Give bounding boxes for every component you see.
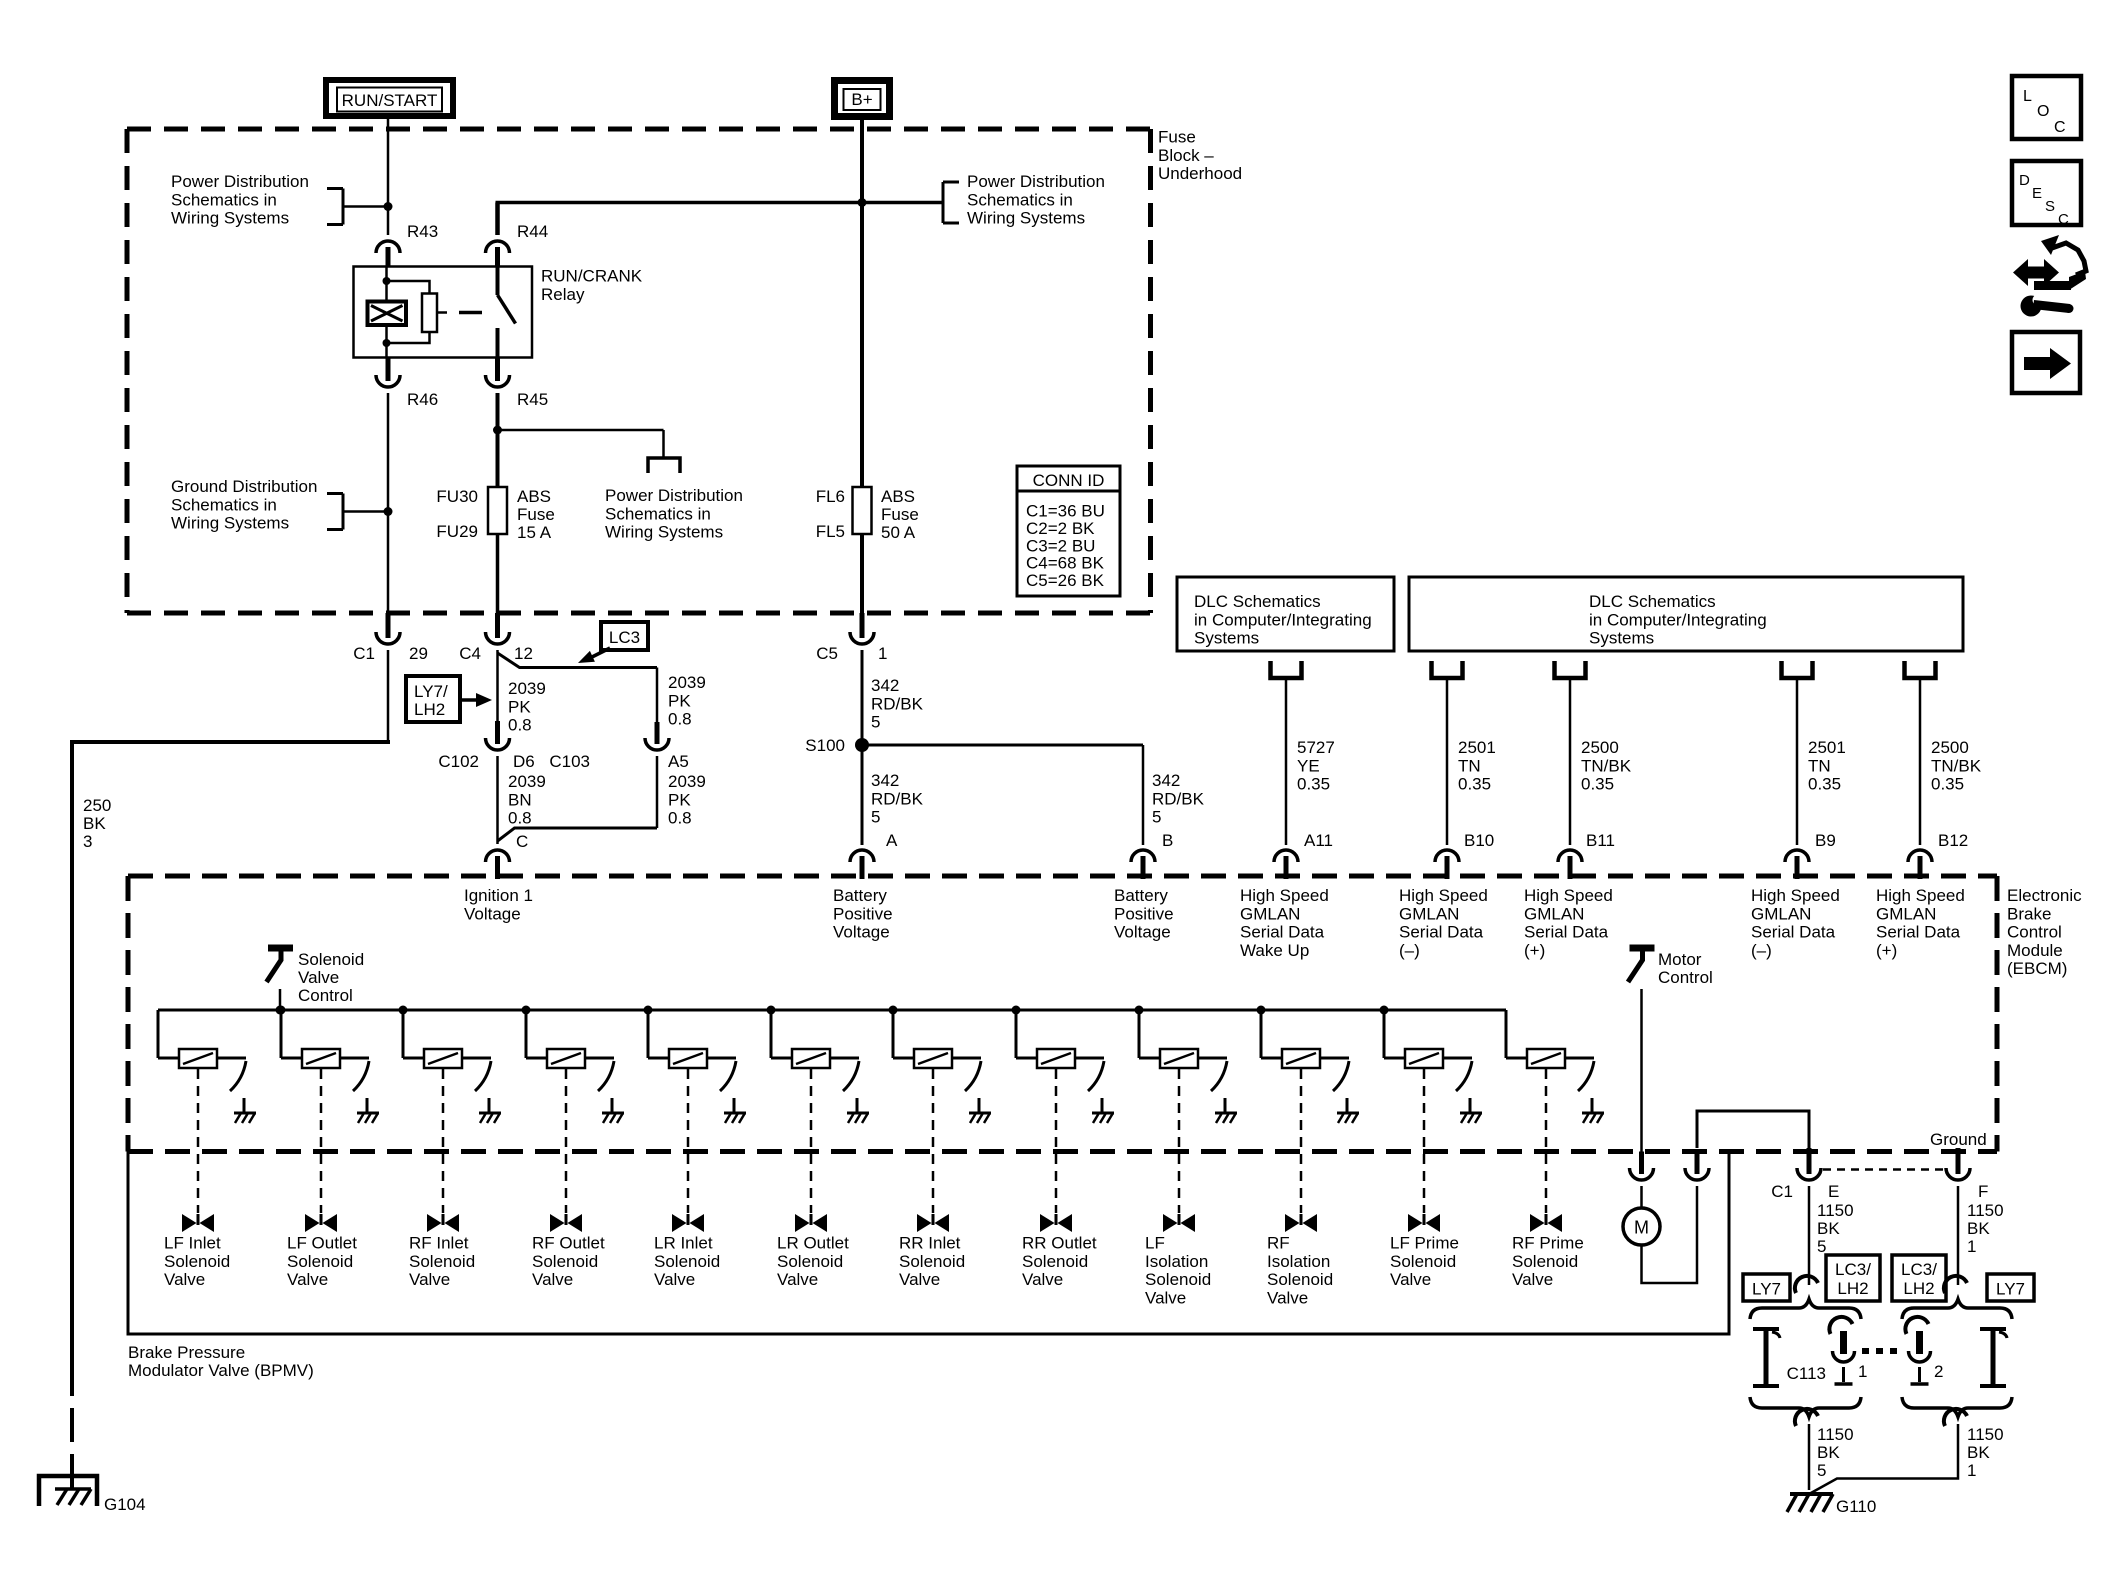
svg-text:High Speed: High Speed [1240, 886, 1329, 905]
svg-text:1150: 1150 [1817, 1201, 1854, 1220]
svg-text:FL6: FL6 [816, 487, 845, 506]
svg-text:5: 5 [1817, 1237, 1826, 1256]
svg-text:LY7/: LY7/ [414, 682, 448, 701]
svg-text:LC3/: LC3/ [1901, 1260, 1937, 1279]
svg-text:0.35: 0.35 [1808, 775, 1841, 794]
svg-text:C: C [2058, 211, 2069, 228]
svg-text:C103: C103 [549, 752, 590, 771]
svg-text:Battery: Battery [833, 886, 887, 905]
svg-text:ABS: ABS [881, 487, 915, 506]
svg-text:FL5: FL5 [816, 522, 845, 541]
svg-text:RR Outlet: RR Outlet [1022, 1234, 1097, 1253]
svg-text:B: B [1162, 831, 1173, 850]
svg-text:0.35: 0.35 [1931, 775, 1964, 794]
svg-text:S: S [2045, 198, 2055, 215]
svg-text:TN/BK: TN/BK [1581, 756, 1632, 775]
svg-text:B9: B9 [1815, 831, 1836, 850]
svg-text:Systems: Systems [1194, 629, 1259, 648]
svg-text:LR Inlet: LR Inlet [654, 1234, 713, 1253]
svg-text:5: 5 [871, 808, 880, 827]
svg-text:FU30: FU30 [436, 487, 478, 506]
svg-text:Solenoid: Solenoid [899, 1252, 965, 1271]
svg-text:LC3: LC3 [609, 628, 640, 647]
svg-text:BK: BK [1967, 1219, 1990, 1238]
svg-text:B+: B+ [851, 90, 872, 109]
svg-text:(+): (+) [1524, 941, 1545, 960]
svg-text:FU29: FU29 [436, 522, 478, 541]
svg-text:LF Prime: LF Prime [1390, 1234, 1459, 1253]
svg-text:0.35: 0.35 [1581, 775, 1614, 794]
svg-text:G110: G110 [1836, 1497, 1876, 1516]
svg-text:1150: 1150 [1967, 1425, 2004, 1444]
svg-text:R43: R43 [407, 222, 438, 241]
svg-text:Ground Distribution: Ground Distribution [171, 477, 317, 496]
svg-text:O: O [2037, 103, 2049, 120]
svg-text:Solenoid: Solenoid [654, 1252, 720, 1271]
svg-text:Isolation: Isolation [1145, 1252, 1208, 1271]
svg-text:C5: C5 [816, 644, 838, 663]
svg-text:RD/BK: RD/BK [1152, 789, 1205, 808]
svg-text:Valve: Valve [899, 1270, 940, 1289]
svg-text:Brake Pressure: Brake Pressure [128, 1343, 245, 1362]
svg-text:2500: 2500 [1931, 738, 1969, 757]
svg-text:Schematics in: Schematics in [605, 504, 711, 523]
svg-text:RD/BK: RD/BK [871, 789, 924, 808]
svg-text:Solenoid: Solenoid [1145, 1270, 1211, 1289]
svg-text:LH2: LH2 [1837, 1279, 1868, 1298]
svg-text:BK: BK [1967, 1443, 1990, 1462]
svg-text:Wake Up: Wake Up [1240, 941, 1309, 960]
svg-text:Control: Control [1658, 968, 1713, 987]
svg-text:G104: G104 [104, 1495, 146, 1514]
svg-text:5: 5 [1152, 808, 1161, 827]
svg-text:Wiring Systems: Wiring Systems [171, 209, 289, 228]
svg-text:0.35: 0.35 [1458, 775, 1491, 794]
svg-text:29: 29 [409, 644, 428, 663]
svg-text:Ground: Ground [1930, 1130, 1987, 1149]
svg-text:GMLAN: GMLAN [1524, 904, 1584, 923]
svg-text:Solenoid: Solenoid [1512, 1252, 1578, 1271]
svg-text:GMLAN: GMLAN [1751, 904, 1811, 923]
svg-text:Serial Data: Serial Data [1240, 923, 1325, 942]
svg-text:2039: 2039 [668, 772, 706, 791]
svg-text:342: 342 [871, 771, 899, 790]
svg-text:Isolation: Isolation [1267, 1252, 1330, 1271]
svg-text:2501: 2501 [1808, 738, 1846, 757]
svg-text:D6: D6 [513, 752, 535, 771]
svg-text:A5: A5 [668, 752, 689, 771]
svg-text:Serial Data: Serial Data [1876, 923, 1961, 942]
svg-text:TN: TN [1458, 756, 1481, 775]
svg-text:15 A: 15 A [517, 523, 552, 542]
svg-text:Power Distribution: Power Distribution [605, 486, 743, 505]
svg-text:L: L [2023, 88, 2032, 105]
svg-text:Solenoid: Solenoid [164, 1252, 230, 1271]
svg-text:(+): (+) [1876, 941, 1897, 960]
svg-text:1: 1 [1967, 1237, 1976, 1256]
svg-text:Voltage: Voltage [833, 923, 890, 942]
svg-text:RF Outlet: RF Outlet [532, 1234, 605, 1253]
svg-text:Valve: Valve [287, 1270, 328, 1289]
svg-text:Serial Data: Serial Data [1399, 923, 1484, 942]
svg-text:R46: R46 [407, 390, 438, 409]
svg-text:Voltage: Voltage [464, 904, 521, 923]
svg-text:342: 342 [1152, 771, 1180, 790]
svg-text:Fuse: Fuse [517, 505, 555, 524]
svg-text:3: 3 [83, 832, 92, 851]
svg-text:Valve: Valve [409, 1270, 450, 1289]
svg-text:High Speed: High Speed [1876, 886, 1965, 905]
svg-text:Solenoid: Solenoid [1022, 1252, 1088, 1271]
svg-text:1150: 1150 [1967, 1201, 2004, 1220]
svg-text:RF Inlet: RF Inlet [409, 1234, 469, 1253]
svg-text:RD/BK: RD/BK [871, 694, 924, 713]
svg-text:C1: C1 [353, 644, 375, 663]
svg-text:0.8: 0.8 [508, 716, 532, 735]
svg-text:LF Outlet: LF Outlet [287, 1234, 357, 1253]
svg-text:Schematics in: Schematics in [171, 190, 277, 209]
svg-text:12: 12 [514, 644, 533, 663]
svg-text:Control: Control [2007, 923, 2062, 942]
svg-text:BK: BK [83, 814, 106, 833]
svg-text:Positive: Positive [1114, 904, 1174, 923]
svg-text:Relay: Relay [541, 285, 585, 304]
svg-text:5727: 5727 [1297, 738, 1335, 757]
svg-text:2: 2 [1934, 1362, 1943, 1381]
svg-text:High Speed: High Speed [1751, 886, 1840, 905]
svg-text:A11: A11 [1304, 831, 1333, 850]
svg-text:1: 1 [1967, 1461, 1976, 1480]
svg-text:C113: C113 [1787, 1364, 1826, 1383]
svg-text:Valve: Valve [1512, 1270, 1553, 1289]
svg-text:C3=2 BU: C3=2 BU [1026, 536, 1095, 555]
svg-text:C4: C4 [459, 644, 481, 663]
svg-text:C2=2 BK: C2=2 BK [1026, 519, 1095, 538]
svg-text:GMLAN: GMLAN [1240, 904, 1300, 923]
svg-text:5: 5 [871, 713, 880, 732]
svg-text:Solenoid: Solenoid [298, 950, 364, 969]
svg-text:M: M [1634, 1218, 1649, 1238]
svg-text:C1: C1 [1771, 1182, 1793, 1201]
svg-text:GMLAN: GMLAN [1399, 904, 1459, 923]
svg-text:LY7: LY7 [1996, 1280, 2025, 1299]
svg-text:RUN/START: RUN/START [342, 91, 438, 110]
svg-text:A: A [886, 831, 898, 850]
svg-text:B10: B10 [1464, 831, 1494, 850]
svg-text:2039: 2039 [508, 772, 546, 791]
svg-text:Underhood: Underhood [1158, 164, 1242, 183]
svg-text:Electronic: Electronic [2007, 886, 2082, 905]
svg-text:BK: BK [1817, 1219, 1840, 1238]
svg-text:Valve: Valve [164, 1270, 205, 1289]
svg-text:Solenoid: Solenoid [409, 1252, 475, 1271]
svg-text:C5=26 BK: C5=26 BK [1026, 571, 1105, 590]
svg-text:Serial Data: Serial Data [1751, 923, 1836, 942]
svg-text:Solenoid: Solenoid [1267, 1270, 1333, 1289]
svg-text:(EBCM): (EBCM) [2007, 959, 2067, 978]
svg-text:Control: Control [298, 986, 353, 1005]
svg-text:5: 5 [1817, 1461, 1826, 1480]
svg-text:BN: BN [508, 790, 532, 809]
svg-text:R44: R44 [517, 222, 548, 241]
svg-text:E: E [1828, 1182, 1839, 1201]
svg-text:F: F [1978, 1182, 1988, 1201]
svg-text:Fuse: Fuse [881, 505, 919, 524]
svg-text:Solenoid: Solenoid [777, 1252, 843, 1271]
svg-text:Modulator Valve (BPMV): Modulator Valve (BPMV) [128, 1361, 314, 1380]
svg-text:R45: R45 [517, 390, 548, 409]
svg-text:Valve: Valve [654, 1270, 695, 1289]
svg-text:2039: 2039 [668, 673, 706, 692]
svg-text:GMLAN: GMLAN [1876, 904, 1936, 923]
svg-text:Wiring Systems: Wiring Systems [171, 514, 289, 533]
svg-text:0.8: 0.8 [668, 710, 692, 729]
svg-text:PK: PK [668, 790, 691, 809]
svg-text:1: 1 [878, 644, 887, 663]
svg-text:2501: 2501 [1458, 738, 1496, 757]
svg-text:DLC Schematics: DLC Schematics [1589, 592, 1716, 611]
svg-text:Solenoid: Solenoid [532, 1252, 598, 1271]
svg-text:B11: B11 [1586, 831, 1615, 850]
svg-text:E: E [2032, 185, 2042, 202]
svg-text:Power Distribution: Power Distribution [967, 172, 1105, 191]
svg-text:LY7: LY7 [1752, 1280, 1781, 1299]
svg-text:Wiring Systems: Wiring Systems [605, 523, 723, 542]
svg-text:High Speed: High Speed [1524, 886, 1613, 905]
svg-text:Wiring Systems: Wiring Systems [967, 209, 1085, 228]
svg-text:Motor: Motor [1658, 950, 1702, 969]
svg-text:(–): (–) [1751, 941, 1772, 960]
svg-text:TN/BK: TN/BK [1931, 756, 1982, 775]
svg-text:C102: C102 [438, 752, 479, 771]
svg-text:Systems: Systems [1589, 629, 1654, 648]
svg-text:PK: PK [668, 691, 691, 710]
svg-text:1150: 1150 [1817, 1425, 1854, 1444]
svg-text:0.8: 0.8 [508, 809, 532, 828]
svg-text:0.8: 0.8 [668, 809, 692, 828]
svg-text:Solenoid: Solenoid [287, 1252, 353, 1271]
svg-text:Valve: Valve [1145, 1288, 1186, 1307]
svg-text:LC3/: LC3/ [1835, 1260, 1871, 1279]
svg-text:Valve: Valve [532, 1270, 573, 1289]
svg-text:LF Inlet: LF Inlet [164, 1234, 221, 1253]
svg-text:TN: TN [1808, 756, 1831, 775]
svg-text:High Speed: High Speed [1399, 886, 1488, 905]
svg-text:BK: BK [1817, 1443, 1840, 1462]
svg-text:Ignition 1: Ignition 1 [464, 886, 533, 905]
svg-text:Valve: Valve [1390, 1270, 1431, 1289]
svg-text:Solenoid: Solenoid [1390, 1252, 1456, 1271]
svg-text:Valve: Valve [777, 1270, 818, 1289]
svg-text:DLC Schematics: DLC Schematics [1194, 592, 1321, 611]
svg-text:Positive: Positive [833, 904, 893, 923]
svg-text:LH2: LH2 [414, 700, 445, 719]
svg-text:Voltage: Voltage [1114, 923, 1171, 942]
svg-text:2039: 2039 [508, 679, 546, 698]
svg-text:PK: PK [508, 697, 531, 716]
svg-text:2500: 2500 [1581, 738, 1619, 757]
svg-text:250: 250 [83, 796, 111, 815]
svg-text:C: C [516, 832, 528, 851]
svg-text:LR Outlet: LR Outlet [777, 1234, 849, 1253]
svg-text:RR Inlet: RR Inlet [899, 1234, 961, 1253]
svg-text:342: 342 [871, 676, 899, 695]
svg-text:C1=36 BU: C1=36 BU [1026, 502, 1105, 521]
svg-text:Serial Data: Serial Data [1524, 923, 1609, 942]
svg-text:CONN ID: CONN ID [1033, 471, 1105, 490]
svg-text:YE: YE [1297, 756, 1320, 775]
svg-text:50 A: 50 A [881, 523, 916, 542]
svg-text:D: D [2019, 172, 2030, 189]
svg-text:Battery: Battery [1114, 886, 1168, 905]
svg-text:B12: B12 [1938, 831, 1968, 850]
svg-text:(–): (–) [1399, 941, 1420, 960]
svg-text:C4=68 BK: C4=68 BK [1026, 554, 1105, 573]
svg-text:Valve: Valve [1022, 1270, 1063, 1289]
svg-text:Brake: Brake [2007, 904, 2051, 923]
svg-text:C: C [2054, 119, 2066, 136]
svg-text:Schematics in: Schematics in [967, 190, 1073, 209]
svg-text:LH2: LH2 [1903, 1279, 1934, 1298]
svg-text:LF: LF [1145, 1234, 1165, 1253]
svg-text:in Computer/Integrating: in Computer/Integrating [1194, 610, 1372, 629]
svg-text:S100: S100 [805, 736, 845, 755]
svg-text:in Computer/Integrating: in Computer/Integrating [1589, 610, 1767, 629]
svg-text:RF Prime: RF Prime [1512, 1234, 1584, 1253]
svg-text:Schematics in: Schematics in [171, 495, 277, 514]
svg-text:Module: Module [2007, 941, 2063, 960]
svg-text:RF: RF [1267, 1234, 1290, 1253]
svg-text:1: 1 [1858, 1362, 1867, 1381]
svg-text:0.35: 0.35 [1297, 775, 1330, 794]
svg-text:ABS: ABS [517, 487, 551, 506]
svg-text:Valve: Valve [1267, 1288, 1308, 1307]
svg-text:Block –: Block – [1158, 146, 1214, 165]
svg-text:Valve: Valve [298, 968, 339, 987]
svg-text:Power Distribution: Power Distribution [171, 172, 309, 191]
svg-text:RUN/CRANK: RUN/CRANK [541, 267, 643, 286]
svg-text:Fuse: Fuse [1158, 128, 1196, 147]
